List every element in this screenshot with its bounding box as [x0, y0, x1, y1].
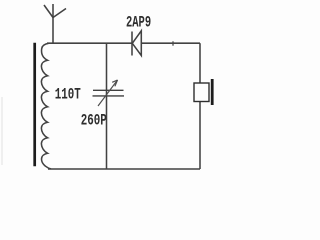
svg-text:2AP9: 2AP9: [126, 14, 151, 32]
wire bottom: [48, 168, 200, 170]
variable capacitor C1 bottom plate: [93, 95, 125, 97]
junction dot artifact on top wire: [172, 41, 174, 45]
diode D1 triangle: [132, 31, 141, 56]
variable capacitor arrow: [98, 80, 118, 106]
inductor L1 coil winding: [41, 43, 51, 169]
diode D1 cathode bar: [131, 32, 133, 56]
wire top right (diode to right corner): [142, 42, 201, 44]
svg-text:260P: 260P: [81, 113, 107, 130]
wire middle vertical: [106, 43, 108, 169]
variable capacitor C1 top plate: [93, 89, 124, 91]
wire top left (antenna/coil to diode): [47, 42, 132, 44]
svg-text:110T: 110T: [55, 87, 81, 104]
wire right lower (earphone to bottom corner): [199, 102, 201, 170]
earphone B1 thick bar: [211, 79, 214, 105]
earphone B1 body: [194, 83, 209, 102]
wire right upper (corner to earphone): [199, 43, 201, 83]
antenna: [44, 4, 66, 43]
scan artifact left edge line: [1, 97, 3, 165]
inductor core bar: [33, 43, 36, 166]
